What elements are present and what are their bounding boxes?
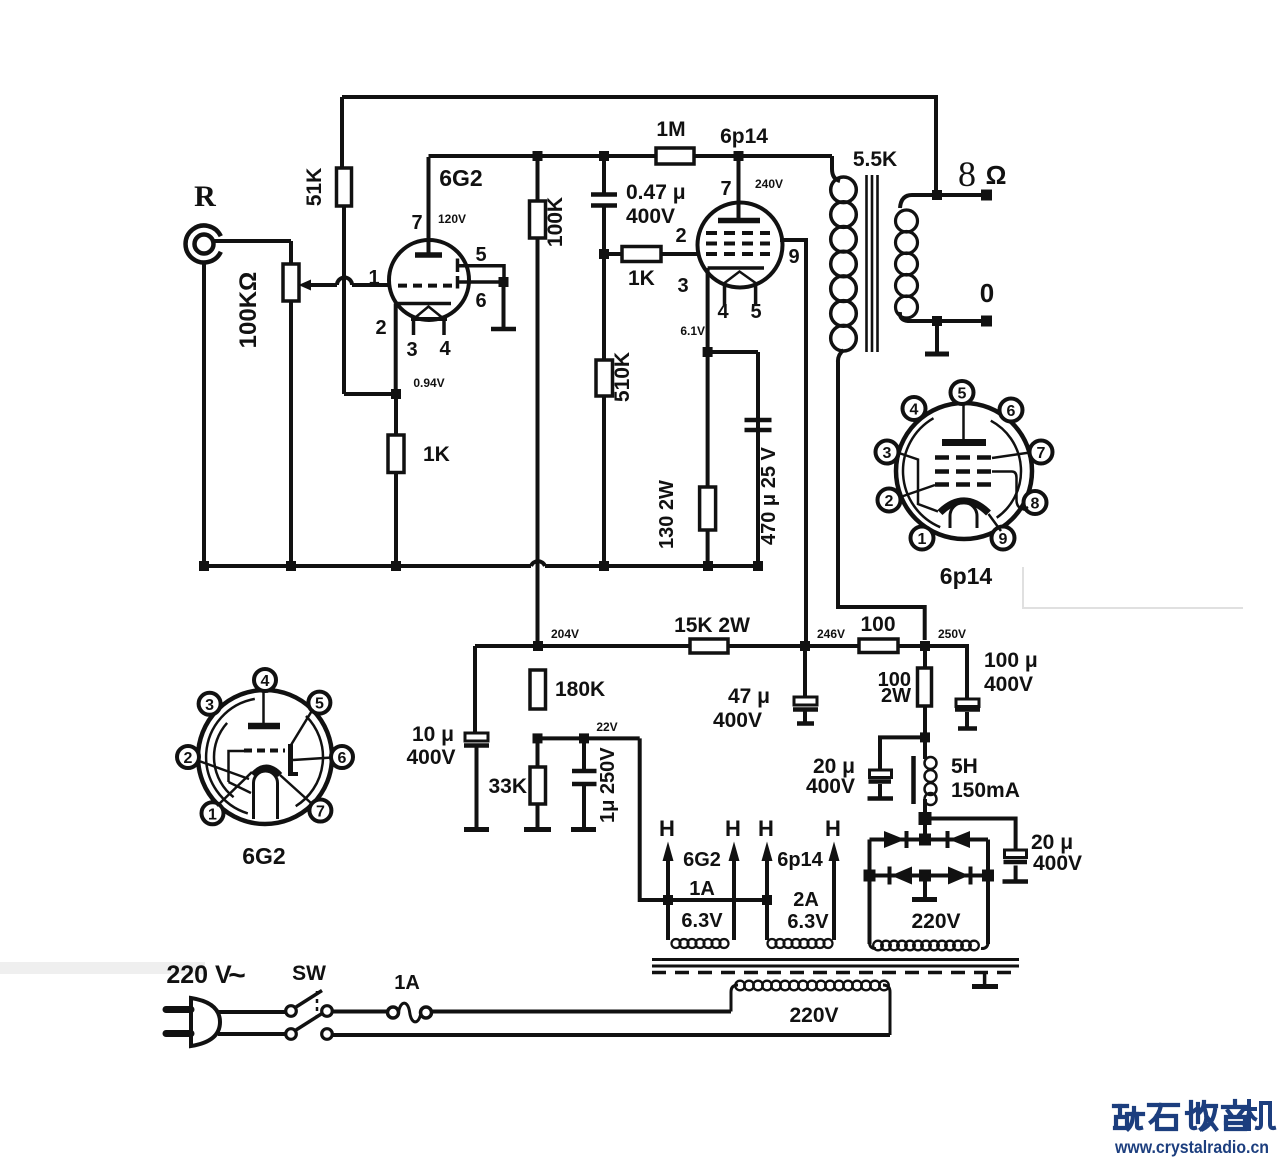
svg-text:6: 6 [338, 750, 347, 767]
svg-text:7: 7 [316, 804, 325, 821]
svg-text:204V: 204V [551, 627, 579, 641]
svg-text:6: 6 [1007, 403, 1016, 420]
svg-text:8: 8 [958, 154, 976, 194]
svg-text:15K 2W: 15K 2W [674, 614, 750, 637]
svg-text:6G2: 6G2 [683, 849, 721, 871]
svg-text:4: 4 [439, 338, 451, 360]
svg-text:6p14: 6p14 [940, 563, 993, 589]
svg-text:2: 2 [184, 750, 193, 767]
svg-text:0.94V: 0.94V [413, 376, 444, 390]
svg-text:10 μ: 10 μ [412, 723, 454, 746]
svg-text:5.5K: 5.5K [853, 148, 897, 171]
svg-text:400V: 400V [626, 205, 675, 228]
svg-text:470 μ 25 V: 470 μ 25 V [758, 446, 780, 545]
svg-text:100 μ: 100 μ [984, 649, 1038, 672]
svg-text:6.3V: 6.3V [681, 910, 723, 932]
svg-text:130 2W: 130 2W [656, 480, 678, 549]
svg-text:510K: 510K [611, 352, 634, 402]
svg-text:3: 3 [883, 445, 892, 462]
svg-text:SW: SW [292, 962, 326, 985]
svg-text:400V: 400V [984, 673, 1033, 696]
svg-text:7: 7 [411, 212, 422, 234]
svg-text:220V: 220V [789, 1004, 838, 1027]
svg-text:3: 3 [205, 697, 214, 714]
svg-text:R: R [194, 180, 216, 213]
svg-text:1A: 1A [689, 878, 715, 900]
svg-text:1M: 1M [656, 118, 685, 141]
svg-text:1: 1 [208, 806, 217, 823]
svg-text:H: H [758, 816, 774, 841]
svg-text:2: 2 [675, 225, 686, 247]
svg-text:2: 2 [375, 317, 386, 339]
svg-text:6.3V: 6.3V [787, 911, 829, 933]
svg-text:8: 8 [1031, 496, 1040, 513]
svg-text:100KΩ: 100KΩ [235, 272, 262, 349]
svg-text:4: 4 [261, 673, 270, 690]
svg-text:3: 3 [677, 275, 688, 297]
svg-text:220V: 220V [911, 910, 960, 933]
svg-text:0: 0 [980, 278, 994, 308]
svg-text:4: 4 [910, 402, 919, 419]
svg-text:150mA: 150mA [951, 779, 1020, 802]
svg-text:9: 9 [788, 246, 799, 268]
svg-text:~: ~ [228, 959, 246, 992]
svg-text:120V: 120V [438, 212, 466, 226]
svg-text:6.1V: 6.1V [680, 324, 705, 338]
svg-text:7: 7 [720, 178, 731, 200]
svg-text:51K: 51K [303, 168, 326, 207]
svg-text:1: 1 [918, 531, 927, 548]
svg-text:2A: 2A [793, 889, 819, 911]
svg-text:400V: 400V [406, 746, 455, 769]
svg-text:400V: 400V [806, 775, 855, 798]
svg-text:33K: 33K [488, 775, 527, 798]
svg-text:100K: 100K [544, 197, 567, 247]
svg-text:220 V: 220 V [166, 961, 232, 989]
svg-text:7: 7 [1037, 445, 1046, 462]
svg-text:180K: 180K [555, 678, 605, 701]
svg-text:5H: 5H [951, 755, 978, 778]
svg-text:22V: 22V [596, 720, 617, 734]
svg-text:9: 9 [999, 531, 1008, 548]
svg-text:5: 5 [750, 301, 761, 323]
svg-text:20 μ: 20 μ [1031, 831, 1073, 854]
svg-text:1: 1 [368, 267, 379, 289]
svg-text:6G2: 6G2 [439, 165, 482, 191]
svg-text:6p14: 6p14 [720, 125, 768, 148]
svg-text:1K: 1K [628, 267, 655, 290]
svg-text:400V: 400V [1033, 852, 1082, 875]
svg-text:6p14: 6p14 [777, 849, 823, 871]
svg-text:5: 5 [315, 696, 324, 713]
svg-text:2W: 2W [881, 685, 911, 707]
svg-text:1μ 250V: 1μ 250V [597, 747, 619, 823]
svg-text:Ω: Ω [986, 160, 1007, 190]
svg-text:1A: 1A [394, 972, 420, 994]
svg-text:6G2: 6G2 [242, 843, 285, 869]
svg-text:240V: 240V [755, 177, 783, 191]
svg-text:5: 5 [475, 244, 486, 266]
svg-text:0.47 μ: 0.47 μ [626, 181, 686, 204]
svg-text:3: 3 [406, 339, 417, 361]
svg-text:246V: 246V [817, 627, 845, 641]
svg-text:250V: 250V [938, 627, 966, 641]
svg-text:100: 100 [860, 613, 895, 636]
svg-text:4: 4 [717, 301, 729, 323]
svg-text:H: H [825, 816, 841, 841]
svg-text:6: 6 [475, 290, 486, 312]
svg-text:www.crystalradio.cn: www.crystalradio.cn [1114, 1137, 1269, 1157]
svg-text:H: H [725, 816, 741, 841]
svg-text:400V: 400V [713, 709, 762, 732]
svg-text:5: 5 [958, 386, 967, 403]
svg-text:2: 2 [885, 493, 894, 510]
svg-text:1K: 1K [423, 443, 450, 466]
svg-text:H: H [659, 816, 675, 841]
svg-text:47 μ: 47 μ [728, 685, 770, 708]
